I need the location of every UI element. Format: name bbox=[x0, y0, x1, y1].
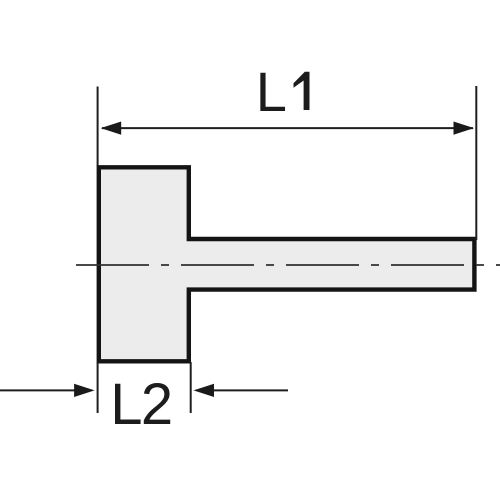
L1 arrowhead left bbox=[101, 122, 122, 135]
L2 dimension line right (arrow from outside) bbox=[213, 389, 288, 391]
L2 extension line right bbox=[190, 362, 192, 413]
L2 arrowhead left bbox=[74, 384, 95, 397]
svg-text:L: L bbox=[256, 60, 287, 123]
L2 arrowhead right bbox=[194, 384, 215, 397]
svg-text:2: 2 bbox=[141, 372, 173, 437]
L1 arrowhead right bbox=[454, 122, 475, 135]
L1 label digit 1 (drawn glyph) bbox=[294, 72, 310, 110]
part body (T-shaped fitting cross-section) bbox=[99, 167, 475, 361]
L1 dimension line bbox=[102, 127, 473, 129]
L1 extension line left bbox=[97, 87, 99, 167]
L2 extension line left bbox=[97, 362, 99, 413]
centerline (dash-dot axis) bbox=[76, 264, 500, 266]
L2 dimension line left (arrow from outside) bbox=[0, 389, 76, 391]
L1 extension line right bbox=[475, 86, 477, 240]
svg-text:L: L bbox=[110, 372, 142, 437]
